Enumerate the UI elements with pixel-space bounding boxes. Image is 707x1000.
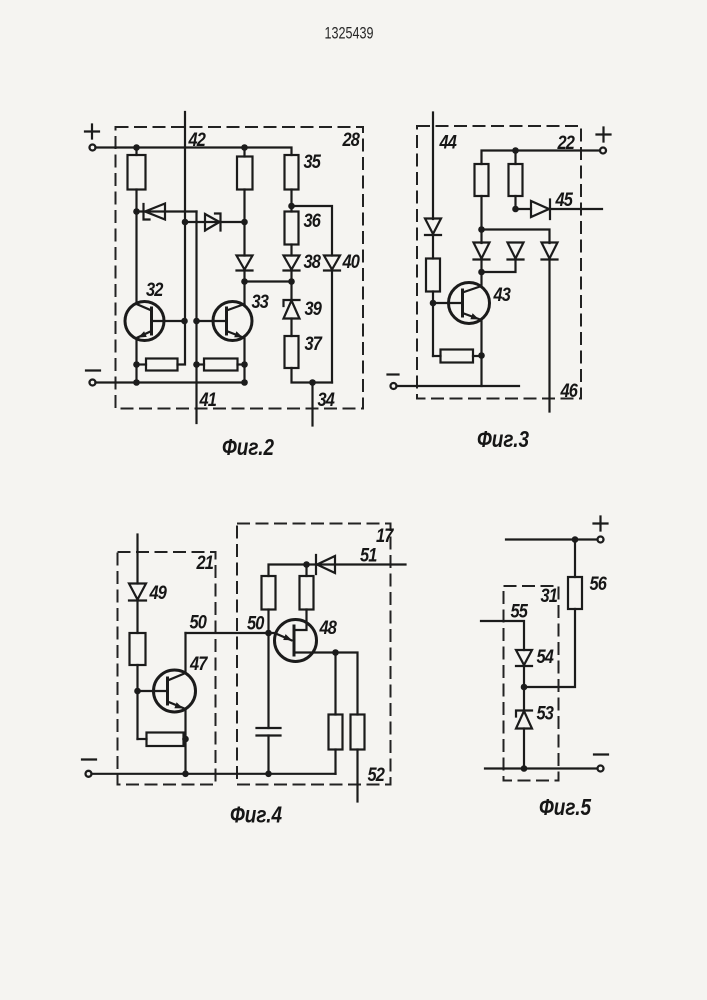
wire: stub rail to collector resistor of VT33 <box>243 148 245 157</box>
svg-text:40: 40 <box>342 252 361 273</box>
wire: right resistor to D45 row <box>514 196 516 209</box>
net 55 input wire <box>481 621 524 650</box>
svg-text:Фиг.4: Фиг.4 <box>230 802 282 828</box>
transistor VT43 collector lead <box>463 272 482 293</box>
plus sign (fig.3) <box>597 128 611 142</box>
svg-text:50: 50 <box>190 613 208 634</box>
dashed block boundary (fig.3) <box>417 126 581 399</box>
minus sign (fig.5) <box>594 753 608 755</box>
node: D38 / D39 / link wire <box>288 278 295 285</box>
svg-text:Фиг.2: Фиг.2 <box>222 434 274 460</box>
wire: emitter resistor right stub <box>184 738 186 740</box>
node: net 41 / emitter resistor VT33 <box>193 361 200 368</box>
node: rail / capacitor <box>265 771 272 778</box>
UJT 48 base-1 lead <box>294 651 336 653</box>
resistor 35 <box>285 155 299 190</box>
right resistor box17 <box>300 576 314 610</box>
diode D1 (zener, cathode left) <box>144 204 166 220</box>
wire: D38 cathode to divider node <box>290 271 292 282</box>
wire: top positive rail (fig.3) <box>482 151 601 165</box>
wire: top positive rail (fig.5) <box>506 538 598 540</box>
svg-text:41: 41 <box>199 390 217 411</box>
resistor 56 <box>568 577 582 609</box>
svg-text:35: 35 <box>304 152 322 173</box>
net 42 vertical control line <box>178 112 186 365</box>
wire: R56 bottom to mid node <box>524 609 575 687</box>
minus terminal (fig.3) <box>391 383 397 389</box>
dashed block boundary 17 (fig.4 right) <box>237 524 391 785</box>
diode D2 (zener, cathode right) <box>205 214 221 231</box>
wire: stub rail to R1 <box>135 148 137 156</box>
transistor VT43 emitter lead <box>463 313 482 356</box>
capacitor plates <box>257 728 281 736</box>
UJT 48 base bar <box>293 625 296 657</box>
svg-text:53: 53 <box>537 704 555 725</box>
svg-text:50: 50 <box>247 614 265 635</box>
diode D-c (cathode down) <box>542 243 558 260</box>
transistor VT43 circle <box>449 283 490 324</box>
node: rail / emitter VT32 <box>133 379 140 386</box>
svg-text:44: 44 <box>439 133 458 154</box>
wire: D3 cathode to node <box>243 271 245 282</box>
node: rail / D53 <box>521 765 528 772</box>
wire: diode D1 row to net 41 drop <box>137 210 197 212</box>
svg-text:21: 21 <box>196 553 214 574</box>
left resistor (fig.3) <box>475 164 489 196</box>
svg-text:38: 38 <box>304 252 322 273</box>
node: rail/R1 <box>133 144 140 151</box>
svg-text:52: 52 <box>368 765 386 786</box>
wire: emitter resistor left stub <box>433 355 441 357</box>
wire: D53 anode to negative rail <box>523 729 525 769</box>
resistor collector VT33 <box>237 157 253 190</box>
node: emitter VT32 / resistor <box>133 361 140 368</box>
svg-text:34: 34 <box>318 390 336 411</box>
diode 53 (zener, cathode up) <box>516 711 532 729</box>
resistor 37 <box>285 336 299 368</box>
svg-text:33: 33 <box>252 292 270 313</box>
wire: bottom negative rail (fig.2) <box>96 381 245 383</box>
transistor VT33 circle <box>213 302 252 341</box>
plus sign (fig.5) <box>594 517 608 531</box>
dashed block boundary 21 (fig.4 left) <box>118 552 216 785</box>
wire: D-b cathode to node row <box>482 260 516 273</box>
wire: diode 40 cathode down to output row <box>331 271 333 383</box>
node: emitter VT47 / resistor <box>182 736 189 743</box>
wire: R-A bottom to rail <box>334 750 336 774</box>
wire: D44 to R44 <box>432 235 434 259</box>
transistor VT33 base bar <box>225 307 228 336</box>
wire: R1 bottom to collector node VT32 <box>135 190 137 212</box>
node: net 42 / anode D2 <box>182 219 189 226</box>
node: D-a / D-b / collector VT43 <box>478 269 485 276</box>
node: D54 / D53 / R56 <box>521 684 528 691</box>
transistor VT32 emitter lead <box>137 331 152 383</box>
wire: D39 anode to R37 <box>290 319 292 337</box>
svg-text:31: 31 <box>541 586 558 607</box>
node: emitter VT33 / resistor <box>241 361 248 368</box>
svg-text:55: 55 <box>511 602 529 623</box>
unijunction transistor 48 circle <box>275 620 317 662</box>
wire: branch to third diode <box>482 230 550 244</box>
diode D3 (collector line VT33, cathode down) <box>237 256 253 271</box>
wire: D-a cathode to collector node <box>480 260 482 273</box>
wire: emitter down to negative rail <box>480 356 482 387</box>
wire: branch to diode 40 <box>292 206 333 256</box>
svg-text:17: 17 <box>376 526 395 547</box>
svg-text:47: 47 <box>189 654 208 675</box>
node: rail / R56 <box>572 536 579 543</box>
node: base-1 / R-A top <box>332 649 339 656</box>
transistor VT47 base bar <box>166 677 169 706</box>
wire: net41 to emitter resistor VT33 <box>197 363 205 365</box>
emitter resistor VT32 (horizontal) <box>146 359 178 371</box>
node: base VT43 <box>430 300 437 307</box>
resistor R-A (bottom left) <box>329 715 343 750</box>
resistor 36 <box>285 212 299 245</box>
node: rail/collector resistor VT33 <box>241 144 248 151</box>
plus terminal (fig.2) <box>90 145 96 151</box>
diode D44 (cathode down) <box>425 219 441 236</box>
wire: R37 bottom to output row <box>292 368 333 383</box>
transistor VT32 emitter arrow <box>138 331 147 337</box>
wire: D49 to R49 <box>136 601 138 634</box>
emitter resistor VT33 (horizontal) <box>204 359 238 371</box>
node: collector VT32 / R1 / diode D1 <box>133 208 140 215</box>
emitter resistor VT43 (horizontal) <box>441 350 474 363</box>
transistor VT43 emitter arrow <box>470 313 479 319</box>
transistor VT47 circle <box>154 670 196 712</box>
plus terminal (fig.3) <box>600 148 606 154</box>
node: R35/R36/branch to D40 <box>288 203 295 210</box>
wire: mid node to D53 <box>523 687 525 711</box>
svg-text:56: 56 <box>590 574 608 595</box>
transistor VT32 circle <box>125 302 164 341</box>
svg-text:48: 48 <box>319 618 338 639</box>
wire: base VT33 to net 41 <box>197 320 227 322</box>
net 34 output line <box>311 383 313 426</box>
left resistor box17 <box>262 576 276 610</box>
wire: bottom negative rail (fig.3) <box>397 385 520 387</box>
minus terminal (fig.2) <box>90 380 96 386</box>
wire: R44 down to base node and emitter resistor <box>432 292 434 357</box>
resistor R44 <box>426 259 440 292</box>
diode 39 (zener, cathode up) <box>284 300 300 319</box>
wire: bottom negative rail (fig.4) <box>92 773 336 775</box>
svg-text:39: 39 <box>305 299 323 320</box>
svg-text:22: 22 <box>557 133 576 154</box>
wire: emitter resistor VT33 to emitter line <box>238 363 245 365</box>
capacitor wire top <box>267 633 269 728</box>
wire: right resistor top stub <box>305 565 307 577</box>
svg-text:54: 54 <box>537 647 555 668</box>
transistor VT47 collector lead <box>168 633 186 681</box>
wire: base VT47 lead <box>138 690 168 692</box>
plus terminal (fig.5) <box>598 537 604 543</box>
diode 38 (cathode down) <box>284 256 300 271</box>
transistor VT33 emitter arrow <box>234 331 243 337</box>
diode 40 (cathode down) <box>324 256 340 271</box>
diode D-a (cathode down) <box>474 243 490 260</box>
transistor VT43 base bar <box>461 289 464 318</box>
wire: collector resistor down through node to diode <box>243 190 245 256</box>
svg-text:Фиг.5: Фиг.5 <box>539 794 592 820</box>
node: R right / D45 <box>512 206 519 213</box>
node: left resistor / branch to D-c <box>478 226 485 233</box>
node: net 51 / right resistor <box>303 561 310 568</box>
wire: link node to divider chain <box>245 280 292 282</box>
transistor VT47 emitter lead <box>168 702 186 740</box>
capacitor wire bottom <box>267 736 269 774</box>
net 49 input vertical line <box>136 535 138 584</box>
dashed block boundary 28 (fig.2) <box>116 127 364 409</box>
transistor VT33 emitter lead <box>227 331 245 383</box>
node: base VT47 <box>134 688 141 695</box>
svg-text:Фиг.3: Фиг.3 <box>477 426 529 452</box>
node: collector VT33 / D3 / link to divider <box>241 278 248 285</box>
wire: emitter resistor right stub <box>473 355 482 357</box>
wire: bottom negative rail (fig.5) <box>485 767 598 769</box>
emitter resistor VT47 (horizontal) <box>147 733 184 747</box>
net 46 line from D-c down <box>548 260 550 412</box>
svg-text:49: 49 <box>149 583 168 604</box>
wire: collector VT33 down into transistor <box>243 282 245 306</box>
transistor VT32 base bar <box>150 307 153 336</box>
minus terminal (fig.5) <box>598 766 604 772</box>
resistor R1 (left, fig.2) <box>128 155 146 190</box>
wire: R36 bottom to diode 38 <box>290 245 292 256</box>
svg-text:37: 37 <box>305 334 324 355</box>
wire: stub rail to right resistor <box>514 151 516 165</box>
svg-text:28: 28 <box>342 130 361 151</box>
wire: diode 45 output row <box>516 208 603 210</box>
svg-text:43: 43 <box>493 285 512 306</box>
svg-text:42: 42 <box>188 130 207 151</box>
node: net 50 / emitter UJT 48 / capacitor <box>265 630 272 637</box>
wire: emitter resistor left stub <box>138 738 147 740</box>
resistor R-B (bottom right) <box>351 715 365 750</box>
wire: node down to R-A <box>334 653 336 715</box>
wire: D54 to mid node <box>523 666 525 687</box>
dashed block boundary 31 (fig.5) <box>504 586 559 781</box>
wire: net42 to diode D2 to collector line VT33 <box>185 221 245 223</box>
svg-text:32: 32 <box>146 280 164 301</box>
wire: base VT43 lead <box>433 302 463 304</box>
wire: R35 bottom to R36 top <box>290 190 292 212</box>
resistor R49 <box>130 633 146 665</box>
wire: net 51 row <box>269 565 406 577</box>
transistor VT33 collector lead <box>227 304 245 311</box>
diode D-b (cathode down) <box>508 243 524 260</box>
wire: emitter VT32 to its resistor <box>137 363 147 365</box>
node: rail / right resistor <box>512 147 519 154</box>
diode 54 (cathode down) <box>516 650 532 666</box>
node: rail / emitter VT47 <box>182 771 189 778</box>
wire: node to diode 39 <box>290 282 292 301</box>
minus terminal (fig.4) <box>86 771 92 777</box>
transistor VT47 emitter arrow <box>174 702 183 708</box>
svg-text:45: 45 <box>555 190 574 211</box>
diode 51 (cathode left) <box>316 555 335 574</box>
transistor VT32 collector lead <box>137 212 152 311</box>
right resistor (fig.3) <box>509 164 523 196</box>
wire: rail to R56 <box>574 540 576 578</box>
net 52 output line from R-B <box>356 750 358 802</box>
svg-text:51: 51 <box>360 546 377 567</box>
minus sign (fig.4) <box>82 758 96 760</box>
net 41 vertical line <box>195 212 197 424</box>
net 50 wire between stages <box>186 632 269 634</box>
minus sign (fig.2) <box>86 369 100 371</box>
plus sign (fig.2 supply) <box>85 125 99 139</box>
wire: top positive rail (fig.2) <box>96 148 292 156</box>
UJT 48 emitter lead <box>269 633 292 640</box>
wire: left resistor bottom to net 50 node <box>267 610 269 634</box>
UJT 48 emitter arrow <box>283 634 292 640</box>
UJT 48 base-2 lead to right resistor <box>294 610 307 631</box>
wire: base-1 branch to R-B <box>336 653 358 715</box>
svg-text:46: 46 <box>560 381 579 402</box>
diode 49 (cathode down) <box>129 584 146 601</box>
wire: emitter down to negative rail <box>184 739 186 774</box>
node: base VT32 / net 42 <box>181 318 188 325</box>
svg-text:1325439: 1325439 <box>325 25 374 43</box>
node: emitter VT43 / resistor <box>478 352 485 359</box>
net 44 vertical line <box>432 113 434 220</box>
svg-text:36: 36 <box>304 211 322 232</box>
diode 45 (cathode right) <box>531 200 550 220</box>
node: rail / emitter VT33 <box>241 379 248 386</box>
wire: left resistor to diode node <box>480 196 482 243</box>
node: cathode D2 / collector line VT33 <box>241 219 248 226</box>
wire: R49 down to base node and emitter resistor corner <box>136 665 138 739</box>
minus sign (fig.3) <box>388 373 399 375</box>
node: output 34 junction <box>309 379 316 386</box>
node: base VT33 / net 41 <box>193 318 200 325</box>
wire: base VT32 to net 42 <box>152 320 185 322</box>
